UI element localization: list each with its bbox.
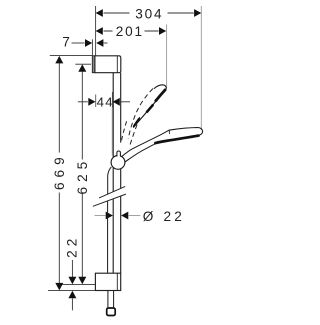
dimension diameter 22 right arrow xyxy=(121,212,128,220)
reference line rail top xyxy=(50,55,93,57)
dimension diameter 22 left leader xyxy=(95,215,106,217)
svg-text:304: 304 xyxy=(135,7,163,22)
dimension 201 line xyxy=(104,30,159,32)
dimension 22 lower leader xyxy=(71,298,73,310)
extension line head right edge xyxy=(200,6,202,130)
hand shower head rim thick segment 2 xyxy=(147,105,153,111)
svg-text:625: 625 xyxy=(75,157,90,195)
dimension 7 right leader xyxy=(104,42,108,44)
rail right edge xyxy=(120,73,122,274)
reference line top bracket hole xyxy=(75,63,91,65)
dimension 22 lower arrow xyxy=(68,291,76,299)
extension line head top xyxy=(166,25,168,89)
dimension 669 line xyxy=(58,63,60,284)
hand shower dashed alt position back xyxy=(121,121,126,141)
dimension 669 bottom arrow xyxy=(55,283,63,291)
svg-text:Ø 22: Ø 22 xyxy=(143,209,185,224)
hand shower nozzle band xyxy=(155,136,198,144)
hose below bracket left xyxy=(107,291,109,308)
hose below bracket right xyxy=(113,291,115,308)
svg-text:22: 22 xyxy=(64,235,79,258)
hand shower head rim thick segment 1 xyxy=(156,90,165,101)
dimension 7 left leader xyxy=(72,42,85,44)
wall bracket top xyxy=(95,56,121,73)
bottom bracket inner line xyxy=(116,273,118,290)
dimension diameter 22 right leader xyxy=(129,215,141,217)
hand shower handle top line xyxy=(121,130,169,157)
svg-text:7: 7 xyxy=(62,34,70,49)
wall bracket top inner line xyxy=(116,56,118,73)
dimension diameter 22 left arrow xyxy=(106,212,113,220)
dimension 7 right arrow xyxy=(96,39,103,47)
dimension 44 right leader xyxy=(120,101,130,103)
dimension 625 bottom arrow xyxy=(78,277,86,285)
dimension 669 top arrow xyxy=(55,56,63,64)
hand shower dashed alt position right xyxy=(130,117,140,146)
hand shower head top hook xyxy=(154,85,166,89)
reference line bracket hole bottom xyxy=(62,284,95,286)
wall plate edge xyxy=(92,56,95,73)
dimension 201 left arrow xyxy=(96,27,103,35)
svg-text:201: 201 xyxy=(116,24,144,39)
dimension 625 line xyxy=(81,71,83,277)
dimension 304 left arrow xyxy=(96,9,103,17)
hose nut xyxy=(107,308,116,316)
hand shower handle bottom line xyxy=(122,143,157,164)
hand shower dashed alt position left xyxy=(128,89,153,140)
dimension 44 left arrow xyxy=(88,98,95,106)
dimension 44 right ext line xyxy=(111,92,113,108)
holder nub xyxy=(117,151,121,157)
hand shower face plate notch xyxy=(168,130,170,134)
dimension 22 upper arrow xyxy=(68,277,76,285)
rail left edge xyxy=(112,73,114,274)
rail break mark lower xyxy=(93,194,126,206)
dimension 44 left leader xyxy=(78,101,88,103)
extension line bracket back xyxy=(91,39,93,55)
extension line wall face xyxy=(95,6,97,56)
holder knob xyxy=(111,156,125,170)
svg-text:669: 669 xyxy=(52,152,67,190)
dimension 44 left ext line xyxy=(95,95,97,108)
reference line rail bottom xyxy=(48,290,95,292)
dimension 625 top arrow xyxy=(78,64,86,72)
hand shower head rim thick segment 3 xyxy=(134,119,139,126)
svg-text:44: 44 xyxy=(97,95,114,110)
hand shower head rim edge xyxy=(133,89,166,128)
dimension 22 upper leader xyxy=(71,260,73,277)
dimension 304 right arrow xyxy=(194,9,201,17)
dimension 304 line xyxy=(104,12,194,14)
rail break mark upper xyxy=(99,186,125,198)
dimension 44 right arrow xyxy=(113,98,120,106)
shower hose upper curve xyxy=(108,167,112,273)
bottom bracket xyxy=(95,273,120,290)
holder axis guide line xyxy=(111,108,113,156)
hand shower face top edge xyxy=(169,128,203,136)
dimension 201 right arrow xyxy=(159,27,166,35)
dimension 7 left arrow xyxy=(85,39,92,47)
